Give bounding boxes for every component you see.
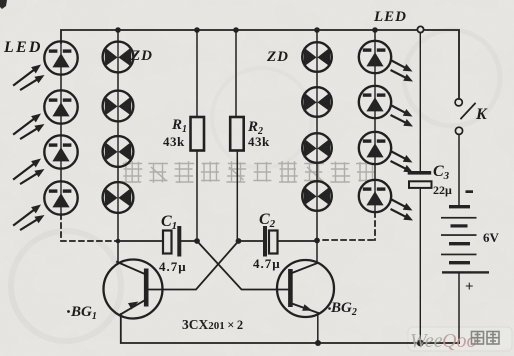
zener diode pair ZD2 (right): [302, 87, 332, 117]
corner blob: [0, 0, 7, 9]
light arrows for right LED D4: [392, 200, 414, 221]
zener diode pair ZD4 (right): [302, 181, 332, 211]
node: BG2 emitter at bottom rail: [315, 340, 321, 346]
LED D1 (left): [44, 41, 77, 74]
node: top rail junction at right LED column: [372, 27, 378, 33]
LED D2 (left): [44, 90, 77, 123]
transistor BG2 (PNP): [277, 241, 334, 344]
label BG2 leading dot: [328, 307, 331, 310]
light arrows for right LED D1: [392, 61, 414, 82]
LED D1 (right): [359, 41, 391, 73]
light arrows for LED D2: [14, 114, 45, 139]
light arrows for LED D3: [14, 159, 45, 184]
zener diode pair ZD2 (left): [103, 91, 134, 122]
zener diode pair ZD1 (left): [103, 42, 134, 73]
node: R2 bottom junction: [236, 238, 242, 244]
zener diode pair ZD1 (right): [302, 42, 332, 72]
node: BG2 collector junction: [314, 238, 320, 244]
node: top rail junction at left ZD column: [115, 27, 121, 33]
resistor R1 43k: [191, 30, 205, 241]
WeeQoo watermark box: [410, 330, 499, 352]
LED D3 (left): [44, 135, 77, 168]
light arrows for LED D4: [14, 205, 45, 230]
LED D3 (right): [359, 132, 391, 164]
capacitor C2 4.7u: [239, 226, 318, 257]
watermark 杭州将睿科技有限公司 (drawn as glyph blocks): [122, 161, 375, 183]
light arrows for right LED D3: [392, 152, 414, 173]
wire: left LED column segments: [60, 74, 62, 182]
switch K: [455, 99, 475, 205]
battery minus mark: [466, 190, 474, 193]
zener diode pair ZD3 (left): [103, 136, 134, 167]
wire: left ZD column segments: [117, 30, 119, 241]
zener diode pair ZD4 (left): [103, 182, 134, 213]
light arrows for LED D1: [14, 65, 45, 90]
LED D4 (right): [359, 180, 391, 212]
wire: dashed LED left column to BG1 collector node: [61, 214, 116, 241]
label BG1 leading dot: [67, 310, 70, 313]
wire: cross-coupling R1 node to BG2 base: [197, 241, 290, 290]
node: top rail junction at R1: [194, 27, 200, 33]
top rail: [61, 30, 459, 99]
node: R1 bottom junction: [194, 238, 200, 244]
WeeQoo watermark box backdrop: [408, 327, 512, 351]
wire: right ZD column segments: [316, 30, 318, 241]
wire: right LED column segments: [374, 30, 376, 180]
wire: BG1 collector node horizontal: [118, 240, 163, 242]
LED D4 (left): [44, 181, 77, 214]
LED D2 (right): [359, 86, 391, 118]
node: BG1 collector junction: [116, 239, 121, 244]
resistor R2 43k: [230, 30, 244, 241]
node: top rail junction at right ZD column: [314, 27, 320, 33]
zener diode pair ZD3 (right): [302, 133, 332, 163]
wire: cross-coupling R2 node to BG1 base: [148, 241, 239, 290]
transistor BG1 (PNP): [104, 241, 163, 319]
wire: dashed LED right column to BG2 collector node: [319, 212, 375, 240]
node: open terminal dot C3 tap: [417, 26, 423, 32]
light arrows for right LED D2: [392, 106, 414, 127]
bottom rail: [121, 314, 459, 343]
node: C3 branch at bottom rail: [417, 340, 424, 347]
capacitor C3 22u (electrolytic): [408, 33, 432, 343]
capacitor C1 4.7u: [163, 226, 197, 257]
battery 6V: [441, 205, 489, 274]
node: top rail junction at R2: [233, 27, 239, 33]
